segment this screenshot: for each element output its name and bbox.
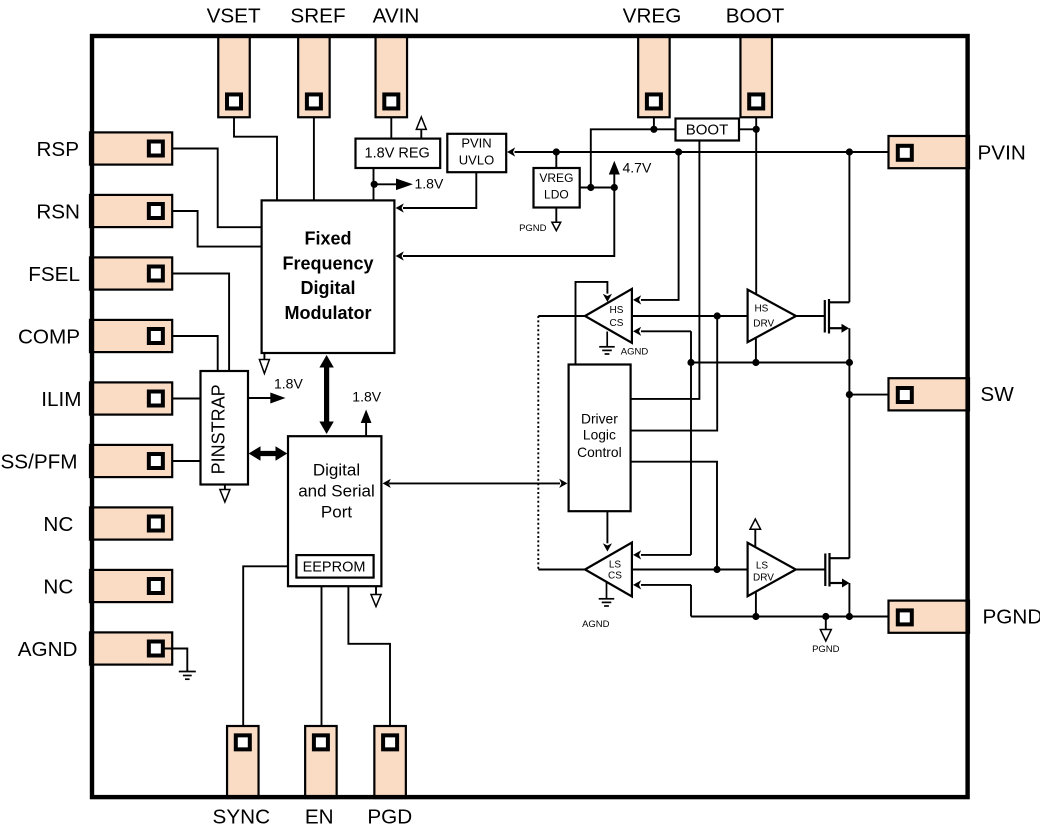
svg-text:Digital: Digital — [313, 461, 360, 480]
svg-text:1.8V: 1.8V — [274, 375, 303, 391]
svg-text:Port: Port — [321, 503, 352, 522]
svg-text:4.7V: 4.7V — [623, 159, 652, 175]
svg-text:VREG: VREG — [539, 171, 573, 185]
svg-text:PGD: PGD — [367, 806, 412, 829]
svg-text:SW: SW — [980, 383, 1014, 406]
svg-text:EEPROM: EEPROM — [303, 559, 366, 575]
svg-text:DRV: DRV — [753, 319, 774, 330]
svg-text:Control: Control — [577, 445, 621, 460]
svg-text:Logic: Logic — [583, 428, 616, 443]
svg-text:SYNC: SYNC — [213, 806, 271, 829]
svg-text:Fixed: Fixed — [304, 229, 351, 249]
svg-text:and Serial: and Serial — [298, 482, 375, 501]
svg-text:FSEL: FSEL — [28, 263, 80, 286]
svg-text:Modulator: Modulator — [285, 303, 372, 323]
svg-text:VSET: VSET — [207, 4, 261, 27]
svg-text:PGND: PGND — [983, 606, 1040, 629]
svg-text:PVIN: PVIN — [978, 141, 1026, 164]
svg-text:COMP: COMP — [18, 326, 80, 349]
svg-text:NC: NC — [43, 576, 73, 599]
svg-text:LS: LS — [609, 560, 622, 571]
svg-text:Driver: Driver — [581, 411, 618, 426]
svg-text:AGND: AGND — [582, 619, 610, 630]
svg-text:AGND: AGND — [18, 638, 78, 661]
svg-text:ILIM: ILIM — [41, 388, 81, 411]
svg-text:DRV: DRV — [753, 573, 774, 584]
svg-text:CS: CS — [608, 571, 622, 582]
svg-text:PGND: PGND — [519, 223, 547, 234]
svg-text:Frequency: Frequency — [282, 253, 373, 273]
svg-text:AGND: AGND — [621, 346, 649, 357]
svg-text:PVIN: PVIN — [461, 135, 491, 150]
svg-text:UVLO: UVLO — [459, 152, 494, 167]
svg-text:EN: EN — [305, 806, 334, 829]
svg-text:1.8V: 1.8V — [415, 176, 444, 192]
svg-text:PGND: PGND — [812, 644, 840, 655]
svg-text:CS: CS — [610, 318, 624, 329]
svg-text:BOOT: BOOT — [686, 121, 729, 138]
svg-text:1.8V: 1.8V — [352, 389, 381, 405]
svg-text:AVIN: AVIN — [373, 4, 420, 27]
svg-text:LS: LS — [756, 560, 769, 571]
svg-text:PINSTRAP: PINSTRAP — [208, 384, 228, 474]
svg-text:SS/PFM: SS/PFM — [0, 451, 77, 474]
svg-text:1.8V REG: 1.8V REG — [365, 146, 430, 162]
svg-text:HS: HS — [610, 305, 624, 316]
svg-text:RSN: RSN — [36, 201, 80, 224]
svg-text:Digital: Digital — [300, 278, 355, 298]
svg-text:HS: HS — [754, 304, 768, 315]
svg-text:BOOT: BOOT — [726, 4, 785, 27]
svg-text:VREG: VREG — [623, 4, 682, 27]
svg-text:SREF: SREF — [290, 4, 345, 27]
svg-text:LDO: LDO — [544, 188, 569, 202]
svg-text:RSP: RSP — [36, 138, 79, 161]
svg-text:NC: NC — [43, 513, 73, 536]
